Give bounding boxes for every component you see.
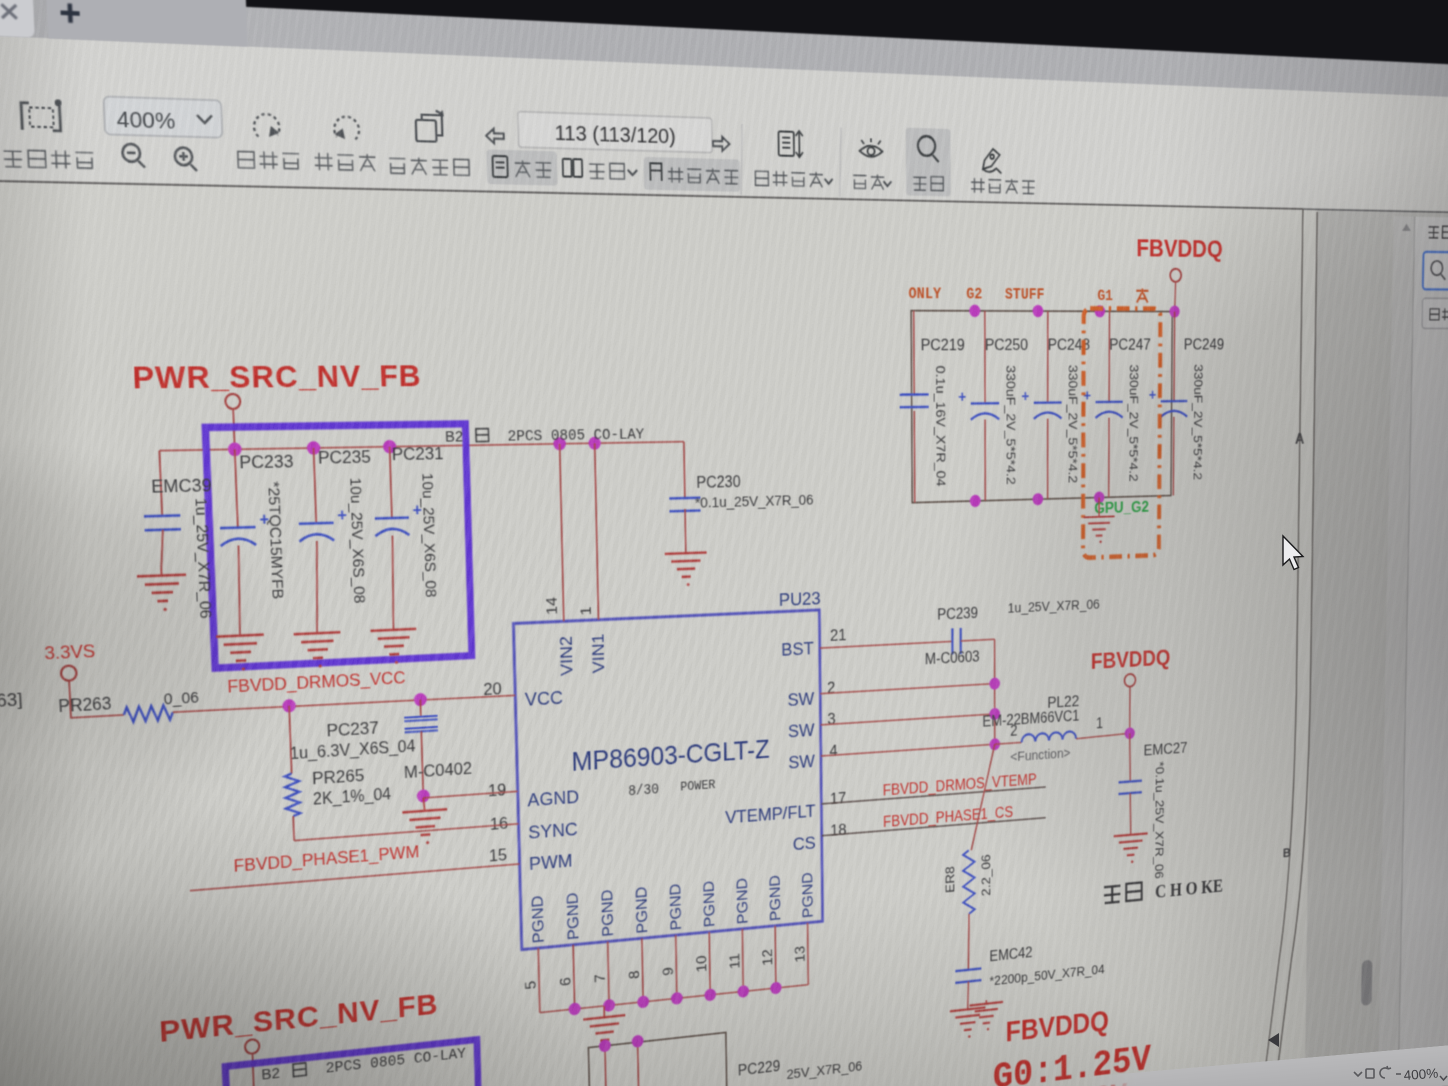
resistor PR265 2K_1%_04: [289, 706, 292, 774]
wire down: [252, 1053, 253, 1086]
ground bottom right: [985, 1000, 987, 1004]
wire cap bank top rail: [159, 442, 683, 451]
rail bottom dots: [970, 495, 981, 508]
junction PGND: [770, 981, 781, 994]
node PWR_SRC_NV_FB: [225, 394, 240, 409]
wire PGND bottom rail: [540, 985, 808, 1013]
ground PC230: [665, 552, 707, 553]
capacitor PC230: [683, 442, 686, 498]
junction SW3: [989, 708, 1000, 721]
wire BST/SW column: [994, 639, 996, 748]
wire VIN1: [595, 443, 599, 620]
wire FBVDDQ down to coil: [1129, 686, 1131, 734]
wire VCC rail: [173, 693, 515, 714]
text CHOKE note: [1104, 886, 1120, 903]
wire SW pin4: [821, 744, 995, 756]
capacitor EMC27 *0.1u_25V_X7R_06: [1129, 733, 1130, 781]
wire VIN2: [560, 444, 564, 621]
ground EMC42: [950, 1007, 986, 1011]
wire PWR_SRC_NV_FB down: [233, 408, 235, 449]
node FBVDDQ mid: [1124, 674, 1135, 687]
junction PGND: [704, 988, 716, 1001]
resistor ER8 2.2_06: [971, 744, 995, 850]
rail top dots: [969, 305, 980, 318]
junction dotA: [282, 699, 296, 713]
cap bank box: [911, 311, 1172, 503]
node 3.3VS: [61, 665, 77, 681]
capacitor EMC39: [159, 451, 162, 516]
inductor PL22 EM-22BM66VC1: [995, 742, 1022, 744]
status bar bottom right: [1085, 1040, 1448, 1086]
wires into lower box: [605, 1046, 607, 1086]
wire VTEMP pin17: [821, 787, 1045, 804]
ground PC235: [294, 632, 341, 634]
junction PGND: [671, 992, 683, 1005]
wire FBVDDQ to rail: [1175, 281, 1176, 312]
junction dotB: [414, 693, 427, 707]
capacitor PC235: [314, 448, 317, 523]
junction PGND: [603, 999, 615, 1013]
wire from 3.3VS: [69, 677, 124, 718]
ground PGND rail: [603, 1006, 605, 1017]
node FBVDDQ top: [1170, 269, 1181, 282]
node PWR_SRC_NV_FB bottom: [245, 1039, 260, 1054]
junction PGND: [737, 985, 749, 998]
schematic sheet frame: [1263, 208, 1303, 1086]
junction dots on top rail: [228, 442, 242, 456]
junction SW4: [989, 738, 1000, 751]
wire SW pin3: [821, 714, 995, 725]
capacitor PC237 1u_6.3V_X6S_04: [419, 700, 422, 717]
ground GPU_G2: [1098, 498, 1100, 517]
wire PWM pin15: [190, 864, 520, 891]
lower circuit box: [588, 1032, 727, 1086]
ground PC231: [371, 629, 417, 631]
ground PC233: [216, 635, 264, 637]
op-amp/regulator IC PU23 MP86903-CGLT-Z: [513, 610, 822, 950]
junction SW2: [989, 677, 1000, 690]
ground EMC27: [1114, 833, 1148, 836]
selection box 2 (purple): [225, 1040, 483, 1086]
ground EMC39: [160, 569, 162, 575]
wire CS pin18: [822, 818, 1046, 836]
junction PGND: [568, 1002, 580, 1016]
mouse cursor: [1283, 536, 1303, 570]
orange highlight box (G1 column): [1083, 308, 1160, 557]
junction PL22 out: [1125, 727, 1135, 739]
selection box (purple) around PC233/PC235/PC231: [205, 424, 471, 668]
capacitor EMC42 2200p_50V_X7R_04: [955, 968, 981, 971]
status bar icons: [1354, 1066, 1401, 1078]
ground PC237: [423, 798, 424, 811]
wire AGND pin19: [423, 791, 517, 798]
horiz scrollbar left arrow: [1268, 1033, 1279, 1047]
capacitor PC231: [390, 447, 392, 518]
capacitor PC233: [235, 449, 238, 527]
capacitor PC239 1u_25V_X7R_06: [820, 641, 953, 648]
wire SYNC pin16: [294, 824, 518, 841]
junction PGND: [637, 995, 649, 1009]
wire SW pin2: [820, 684, 994, 694]
junction dotC: [417, 789, 430, 803]
